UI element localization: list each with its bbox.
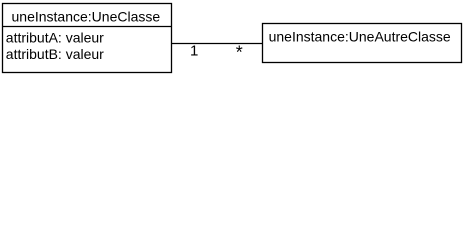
svg-text:uneInstance:UneClasse: uneInstance:UneClasse bbox=[12, 8, 161, 24]
association wire bbox=[171, 43, 262, 45]
svg-text:1: 1 bbox=[190, 43, 198, 60]
svg-text:attributB: valeur: attributB: valeur bbox=[6, 46, 104, 62]
svg-text:attributA: valeur: attributA: valeur bbox=[6, 29, 104, 45]
object box uneInstance:UneClasse bbox=[3, 4, 172, 73]
object box uneInstance:UneAutreClasse bbox=[263, 24, 462, 63]
compartment separator bbox=[2, 26, 172, 28]
svg-text:uneInstance:UneAutreClasse: uneInstance:UneAutreClasse bbox=[269, 29, 451, 45]
svg-text:*: * bbox=[236, 43, 243, 63]
